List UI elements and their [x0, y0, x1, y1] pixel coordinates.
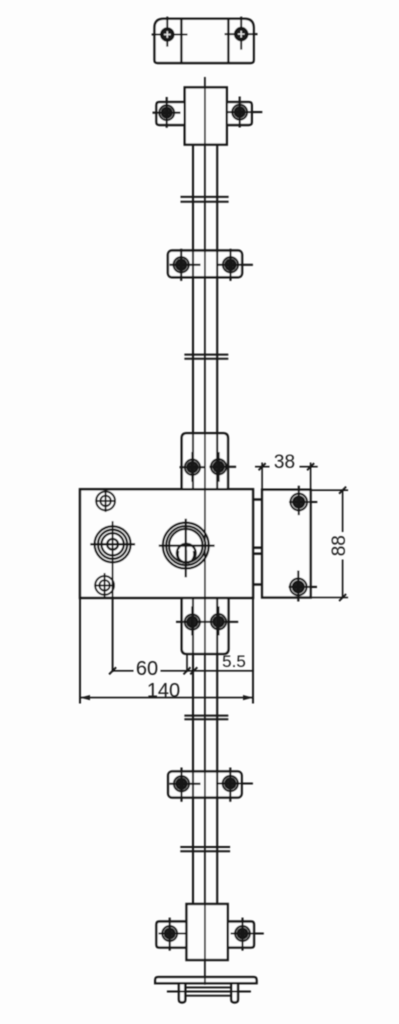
- screw L2 lower bracket right: [211, 606, 226, 635]
- main key cylinder: [159, 519, 215, 578]
- dim 88 tick top: [339, 487, 346, 494]
- dim 140 arrow left: [80, 695, 90, 700]
- dim 88 line: [342, 490, 344, 597]
- break lines C: [184, 716, 228, 720]
- body screw bottom-left: [94, 573, 115, 598]
- svg-text:38: 38: [274, 452, 295, 473]
- upper lock bracket: [182, 433, 228, 489]
- rod left edge upper run: [192, 145, 194, 904]
- screw B4 right: [231, 918, 264, 951]
- svg-text:5.5: 5.5: [222, 652, 246, 671]
- svg-text:140: 140: [147, 680, 180, 702]
- screw L1 lower bracket left: [185, 606, 200, 635]
- screw B2 right: [217, 249, 253, 281]
- break lines B: [184, 355, 228, 359]
- strike plate screw top: [289, 486, 317, 515]
- top plate panel line right: [227, 19, 229, 63]
- dim 60 tick left: [109, 667, 116, 674]
- latch gap tick upper: [253, 498, 262, 500]
- lower bracket screws crossline: [176, 621, 238, 623]
- break lines A: [181, 197, 229, 202]
- dim 5.5 tick right: [190, 667, 197, 674]
- body right edge extension: [252, 598, 254, 704]
- top mounting plate: [155, 19, 254, 63]
- screw P1 top plate left: [152, 17, 188, 47]
- dim 88 top connector: [311, 489, 349, 491]
- break lines D: [180, 847, 230, 851]
- latch gap tick pair: [253, 548, 262, 554]
- screw B4 left: [159, 918, 188, 951]
- floor plate bar: [155, 977, 256, 983]
- floor rail middle wide: [167, 991, 251, 993]
- floor left leg: [179, 983, 185, 1002]
- strike plate screw bottom: [289, 571, 318, 602]
- screw B2 left: [170, 249, 201, 281]
- rod guide bracket B2: [168, 251, 242, 278]
- rod guide bracket B3: [168, 771, 242, 797]
- screw B1 left: [153, 97, 181, 128]
- vertical centerline: [204, 77, 206, 985]
- bracket B4 right wing: [228, 922, 254, 948]
- rod right edge upper run: [216, 145, 218, 904]
- left cylinder vertical centerline / 60 extension: [112, 521, 114, 672]
- screw B3 left: [170, 768, 201, 802]
- screw U1 upper bracket left: [180, 452, 205, 482]
- bracket B4 block: [187, 904, 228, 960]
- screw U2 upper bracket right: [209, 452, 236, 482]
- svg-text:60: 60: [136, 658, 158, 680]
- latch gap tick lower: [253, 583, 262, 585]
- screw P2 top plate right: [225, 17, 258, 50]
- lock body: [80, 489, 253, 598]
- bracket B1 block: [185, 87, 227, 144]
- svg-text:88: 88: [329, 535, 350, 556]
- dim 38 tick left: [259, 463, 266, 470]
- floor rail upper: [185, 986, 231, 988]
- dim 38 line: [255, 466, 318, 468]
- left cylinder: [90, 526, 135, 562]
- dim 38 tick right: [307, 463, 314, 470]
- lower lock bracket: [182, 598, 229, 654]
- dim 38 extension right: [310, 463, 312, 490]
- top plate panel line left: [180, 19, 182, 63]
- bracket B1 left wing: [156, 102, 184, 125]
- bracket B4 left wing: [156, 922, 186, 948]
- body left edge extension: [79, 598, 81, 704]
- screw B1 right: [226, 97, 263, 128]
- body screw top-left: [95, 490, 116, 512]
- dim 38 extension left: [261, 463, 263, 490]
- floor right leg: [231, 983, 238, 1002]
- bracket B1 right wing: [227, 102, 252, 125]
- screw B3 right: [216, 768, 253, 802]
- dim 60 / 5.5 line: [113, 670, 254, 672]
- dim 60 tick right / 5.5 tick left: [184, 667, 191, 674]
- dim 88 bottom connector: [311, 597, 349, 599]
- dim 5.5 extension (cylinder axis): [186, 654, 188, 672]
- strike plate: [262, 490, 311, 598]
- dim 88 tick bottom: [339, 594, 346, 601]
- floor rail lower: [185, 995, 231, 997]
- dim 140 arrow right: [243, 695, 253, 700]
- dim 140 line: [80, 697, 253, 699]
